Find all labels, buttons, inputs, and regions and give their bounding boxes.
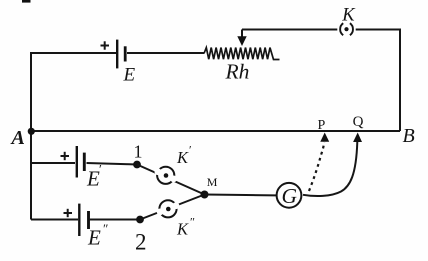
wire: battery E to top-left corner and left vertical rail [31, 53, 117, 220]
node 1 [133, 161, 141, 169]
wire: battery E'' to node 2 [90, 219, 141, 221]
wiper arrow of Rh [237, 30, 246, 47]
switch K' [155, 167, 178, 184]
wire: A to B main line [31, 130, 400, 132]
plus sign of E' [61, 152, 70, 160]
wire: node 2 through switch K'' to M [140, 195, 205, 220]
wire: rail bottom corner to battery E'' [31, 219, 78, 221]
wire: node 1 through switch K' to M [137, 165, 205, 195]
node 2 [136, 216, 144, 224]
svg-text:K: K [176, 220, 189, 239]
wire: battery E to rheostat Rh [127, 52, 204, 54]
wire: M to galvanometer G [205, 195, 286, 196]
svg-text:2: 2 [135, 230, 147, 255]
stray cropped mark top-left [22, 0, 31, 3]
svg-text:K: K [341, 5, 356, 25]
battery E [117, 40, 125, 69]
svg-text:B: B [403, 125, 415, 147]
svg-text:″: ″ [190, 215, 195, 229]
dotted jockey arrow to P [309, 133, 329, 192]
plus sign of E [101, 41, 110, 49]
solid jockey arrow to Q [303, 133, 362, 197]
svg-text:Q: Q [353, 114, 364, 130]
svg-text:″: ″ [103, 221, 108, 236]
svg-text:′: ′ [189, 143, 192, 157]
svg-text:1: 1 [134, 142, 143, 162]
svg-text:A: A [10, 127, 25, 149]
rheostat Rh zigzag [204, 48, 280, 60]
wire: battery E' to node 1 [87, 163, 138, 165]
switch K (plug key) [340, 23, 353, 35]
svg-text:P: P [318, 118, 326, 133]
svg-text:K: K [176, 148, 189, 167]
svg-text:E: E [87, 226, 101, 250]
battery E' [77, 146, 85, 178]
battery E'' [79, 204, 88, 236]
galvanometer G [277, 183, 302, 208]
svg-text:M: M [207, 175, 218, 189]
svg-text:E: E [123, 65, 136, 86]
wire: rail to battery E' [31, 162, 75, 164]
plus sign of E'' [64, 209, 73, 217]
switch K'' [157, 200, 180, 217]
node M [201, 191, 209, 199]
svg-text:G: G [282, 184, 298, 208]
node A [28, 128, 35, 135]
wire: switch K to corner B [356, 30, 400, 132]
svg-text:E: E [86, 167, 100, 191]
svg-text:Rh: Rh [225, 60, 250, 84]
wire: wiper to switch K [242, 29, 337, 31]
